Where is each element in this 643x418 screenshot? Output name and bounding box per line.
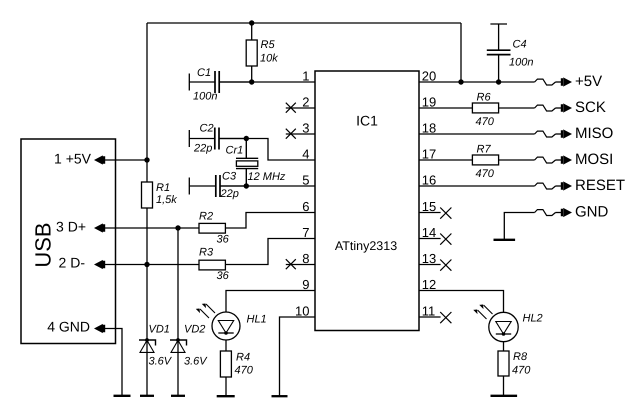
wire squiggle to +5V arrow bbox=[556, 81, 562, 83]
svg-text:17: 17 bbox=[422, 146, 436, 161]
svg-text:R5: R5 bbox=[261, 39, 276, 51]
zener diode VD1 bbox=[139, 323, 173, 367]
break squiggle +5V bbox=[535, 79, 556, 85]
no-connect X pin 15 bbox=[440, 208, 451, 219]
svg-text:7: 7 bbox=[302, 225, 309, 240]
wire crystal node to IC pin 4 bbox=[219, 139, 315, 161]
wire USB +5V to rail bbox=[105, 159, 147, 161]
svg-text:R8: R8 bbox=[513, 351, 528, 363]
svg-text:HL2: HL2 bbox=[523, 313, 543, 325]
junction R5 top on rail bbox=[249, 20, 254, 25]
svg-text:Cr1: Cr1 bbox=[226, 145, 244, 157]
wire IC pin 12 to HL2 bbox=[419, 291, 504, 313]
wire R4 to ground bbox=[225, 377, 227, 396]
svg-text:16: 16 bbox=[422, 172, 436, 187]
svg-text:R2: R2 bbox=[199, 210, 213, 222]
svg-text:3.6V: 3.6V bbox=[149, 355, 173, 367]
resistor R3 body bbox=[199, 260, 225, 270]
resistor R2 body bbox=[199, 223, 225, 233]
junction +5V node bbox=[144, 157, 149, 162]
ground symbol below R8 bbox=[491, 395, 518, 397]
svg-text:36: 36 bbox=[217, 270, 230, 282]
no-connect X pin 13 bbox=[440, 260, 451, 271]
svg-text:19: 19 bbox=[422, 94, 436, 109]
junction Cr1 bottom / C3 bbox=[244, 183, 249, 188]
wire HL1 to R4 bbox=[225, 340, 227, 351]
svg-text:C2: C2 bbox=[200, 122, 214, 134]
resistor R5 body bbox=[246, 40, 257, 66]
IC U1 (IC1 ATtiny2313) body bbox=[315, 71, 419, 331]
svg-text:470: 470 bbox=[476, 168, 495, 180]
capacitor C2 bbox=[189, 122, 246, 154]
svg-text:18: 18 bbox=[422, 120, 436, 135]
svg-text:VD1: VD1 bbox=[149, 323, 170, 335]
wire ground to GND break bbox=[504, 213, 534, 240]
wire IC pin 15 stub bbox=[419, 212, 441, 214]
svg-text:22p: 22p bbox=[193, 143, 212, 155]
break squiggle MOSI bbox=[535, 157, 556, 163]
svg-text:36: 36 bbox=[217, 234, 230, 246]
wire C3 / crystal bottom to IC pin 5 bbox=[220, 185, 315, 187]
svg-text:HL1: HL1 bbox=[247, 313, 267, 325]
wire IC pin 10 to ground bbox=[280, 317, 316, 396]
arrow MOSI output bbox=[561, 155, 572, 164]
svg-text:20: 20 bbox=[422, 68, 436, 83]
wire IC pin 16 to RESET break bbox=[419, 185, 535, 187]
break squiggle MISO bbox=[535, 131, 556, 137]
svg-text:R4: R4 bbox=[236, 352, 250, 364]
wire squiggle to MISO arrow bbox=[556, 133, 562, 135]
arrow +5V output bbox=[561, 77, 572, 86]
svg-text:470: 470 bbox=[476, 116, 495, 128]
svg-text:R3: R3 bbox=[199, 246, 214, 258]
wire IC pin 11 stub bbox=[419, 316, 441, 318]
svg-text:1,5k: 1,5k bbox=[156, 194, 177, 206]
svg-text:3 D+: 3 D+ bbox=[56, 218, 86, 234]
break squiggle GND bbox=[535, 210, 556, 216]
wire squiggle to MOSI arrow bbox=[556, 159, 562, 161]
wire squiggle to GND arrow bbox=[556, 212, 562, 214]
wire R6 to SCK break bbox=[499, 107, 535, 109]
wire top +5V rail bbox=[147, 22, 461, 24]
wire R8 to ground bbox=[503, 376, 505, 396]
wire IC pin 8 stub bbox=[286, 264, 315, 266]
wire +5V rail vertical upper segment bbox=[146, 23, 148, 182]
resistor R4 body bbox=[220, 351, 231, 377]
no-connect X pin 11 bbox=[440, 312, 451, 323]
wire C1 to IC pin 1 bbox=[219, 81, 315, 83]
resistor R6 body bbox=[472, 103, 498, 113]
junction D+ / VD2 bbox=[175, 225, 180, 230]
svg-text:100n: 100n bbox=[509, 56, 533, 68]
svg-text:USB: USB bbox=[31, 222, 56, 267]
svg-text:RESET: RESET bbox=[575, 177, 625, 194]
svg-text:R6: R6 bbox=[477, 92, 492, 104]
LED HL1 bbox=[196, 304, 267, 341]
arrow into USB pin 4 bbox=[94, 324, 105, 333]
wire R2 to IC pin 6 bbox=[225, 213, 315, 229]
junction rail / pin20 net bbox=[458, 79, 463, 84]
USB connector X1 body bbox=[21, 139, 116, 344]
arrow into USB pin 3 bbox=[94, 223, 105, 232]
svg-text:IC1: IC1 bbox=[356, 113, 378, 129]
ground symbol at GND output bbox=[494, 239, 516, 241]
arrow GND output bbox=[561, 208, 572, 217]
resistor R7 body bbox=[472, 155, 498, 165]
wire USB GND down to ground bbox=[104, 329, 122, 396]
capacitor C3 bbox=[189, 170, 246, 200]
svg-text:+5V: +5V bbox=[575, 73, 602, 90]
svg-text:SCK: SCK bbox=[575, 99, 606, 116]
svg-text:8: 8 bbox=[302, 251, 309, 266]
svg-text:14: 14 bbox=[422, 225, 436, 240]
wire IC pin 13 stub bbox=[419, 264, 441, 266]
no-connect X pin 2 bbox=[286, 103, 296, 113]
wire VD2 vertical bbox=[177, 228, 179, 396]
ground symbol below IC pin 10 bbox=[272, 395, 288, 397]
wire R7 to MOSI break bbox=[499, 159, 535, 161]
svg-text:3: 3 bbox=[302, 120, 309, 135]
svg-text:11: 11 bbox=[422, 303, 436, 318]
wire IC pin 9 to HL1 bbox=[226, 291, 315, 313]
svg-text:ATtiny2313: ATtiny2313 bbox=[335, 239, 397, 253]
wire IC pin 18 to MISO break bbox=[419, 133, 535, 135]
wire USB D- to R3 bbox=[105, 264, 199, 266]
ground symbol below R4 bbox=[217, 395, 235, 397]
resistor R8 body bbox=[498, 351, 509, 376]
svg-text:12 MHz: 12 MHz bbox=[248, 171, 286, 183]
svg-text:10k: 10k bbox=[260, 52, 278, 64]
wire IC pin 14 stub bbox=[419, 238, 441, 240]
svg-text:1: 1 bbox=[302, 68, 309, 83]
svg-text:3.6V: 3.6V bbox=[184, 355, 208, 367]
svg-text:470: 470 bbox=[512, 364, 531, 376]
ground symbol below VD1 bbox=[140, 395, 154, 397]
svg-text:9: 9 bbox=[302, 277, 309, 292]
svg-text:6: 6 bbox=[302, 199, 309, 214]
capacitor C4 bbox=[487, 24, 534, 82]
svg-text:2: 2 bbox=[302, 94, 309, 109]
wire squiggle to RESET arrow bbox=[556, 185, 562, 187]
wire R3 to IC pin 7 bbox=[225, 239, 315, 265]
crystal Cr1 bbox=[226, 139, 286, 187]
junction C4 / pin20 net bbox=[496, 79, 501, 84]
no-connect X pin 8 bbox=[286, 259, 296, 269]
svg-text:MISO: MISO bbox=[575, 125, 613, 142]
wire R5 leads bbox=[251, 23, 253, 82]
LED HL2 bbox=[473, 305, 542, 342]
svg-text:4 GND: 4 GND bbox=[47, 319, 90, 335]
svg-text:13: 13 bbox=[422, 251, 436, 266]
no-connect X pin 3 bbox=[286, 129, 296, 139]
capacitor C1 bbox=[189, 67, 251, 103]
wire HL2 to R8 bbox=[503, 341, 505, 351]
no-connect X pin 14 bbox=[440, 234, 451, 245]
junction C2 / Cr1 top bbox=[244, 136, 249, 141]
wire IC pin 19 to R6 bbox=[419, 107, 472, 109]
svg-text:GND: GND bbox=[575, 203, 609, 220]
svg-text:22p: 22p bbox=[220, 188, 239, 200]
svg-text:100n: 100n bbox=[193, 91, 217, 103]
svg-text:1 +5V: 1 +5V bbox=[54, 150, 92, 166]
wire IC pin 2 stub bbox=[286, 107, 315, 109]
wire IC pin 17 to R7 bbox=[419, 159, 472, 161]
svg-text:2 D-: 2 D- bbox=[59, 255, 86, 271]
svg-text:12: 12 bbox=[422, 277, 436, 292]
wire USB D+ to R2 bbox=[105, 227, 199, 229]
zener diode VD2 bbox=[170, 323, 208, 367]
svg-text:MOSI: MOSI bbox=[575, 151, 613, 168]
svg-text:C3: C3 bbox=[222, 170, 237, 182]
arrow SCK output bbox=[561, 103, 572, 112]
wire squiggle to SCK arrow bbox=[556, 107, 562, 109]
svg-text:R7: R7 bbox=[477, 144, 492, 156]
svg-text:VD2: VD2 bbox=[184, 323, 205, 335]
arrow into USB pin 2 bbox=[94, 260, 105, 269]
break squiggle SCK bbox=[535, 105, 556, 111]
svg-text:15: 15 bbox=[422, 199, 436, 214]
svg-text:R1: R1 bbox=[156, 182, 170, 194]
arrow RESET output bbox=[561, 181, 572, 190]
junction D- / VD1 bbox=[144, 262, 149, 267]
svg-text:470: 470 bbox=[235, 365, 254, 377]
wire R1 to VD1 to ground vertical bbox=[146, 208, 148, 396]
break squiggle RESET bbox=[535, 183, 556, 189]
svg-text:C4: C4 bbox=[513, 38, 527, 50]
arrow MISO output bbox=[561, 129, 572, 138]
wire IC pin 3 stub bbox=[286, 133, 315, 135]
svg-text:10: 10 bbox=[295, 303, 309, 318]
wire top rail down to pin 20 net bbox=[460, 23, 462, 82]
arrow into USB pin 1 bbox=[94, 155, 105, 164]
resistor R1 body bbox=[142, 182, 153, 208]
svg-text:4: 4 bbox=[302, 146, 309, 161]
wire IC pin 20 to +5V break bbox=[419, 81, 535, 83]
svg-text:C1: C1 bbox=[197, 67, 211, 79]
junction R5 bottom on pin1 net bbox=[249, 79, 254, 84]
svg-text:5: 5 bbox=[302, 172, 309, 187]
ground symbol below USB GND bbox=[114, 395, 131, 397]
ground symbol below VD2 bbox=[171, 395, 185, 397]
